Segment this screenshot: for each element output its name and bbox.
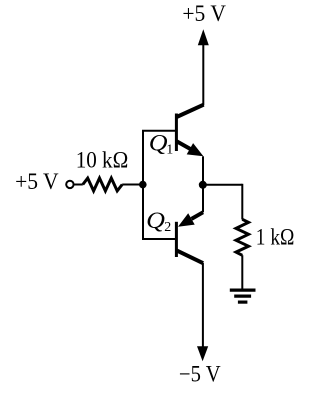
- wire: left vertical joining both bases: [142, 131, 144, 239]
- label Q1: [149, 130, 174, 157]
- transistor Q1 (NPN): [175, 105, 204, 157]
- wire: R2 to ground: [241, 255, 243, 289]
- resistor R1 10 kOhm (horizontal zigzag): [83, 178, 122, 191]
- wire: to Q1 base: [142, 130, 176, 132]
- node: output junction dot: [199, 181, 207, 189]
- ground: [230, 290, 256, 302]
- power +5 V arrow: [198, 29, 209, 45]
- svg-text:+5 V: +5 V: [182, 1, 226, 26]
- wire: terminal to resistor R1: [73, 184, 82, 186]
- svg-text:2: 2: [164, 220, 171, 235]
- svg-text:1 kΩ: 1 kΩ: [256, 225, 295, 250]
- wire: R1 to input node: [122, 184, 143, 186]
- svg-text:−5 V: −5 V: [179, 362, 221, 387]
- svg-text:+5 V: +5 V: [15, 169, 59, 194]
- wire: Q2 collector down to -5V supply: [202, 263, 204, 347]
- svg-text:Q: Q: [146, 208, 165, 233]
- wire: to Q2 base: [142, 238, 176, 240]
- wire: +5V supply down to Q1 collector: [202, 44, 204, 105]
- svg-text:Q: Q: [149, 130, 168, 155]
- svg-text:1: 1: [166, 143, 173, 158]
- svg-text:10 kΩ: 10 kΩ: [76, 148, 129, 173]
- node: input junction dot: [139, 181, 147, 189]
- label Q2: [146, 208, 171, 235]
- wire: down to R2: [241, 184, 243, 220]
- wire: Q1 emitter to output node: [202, 156, 204, 212]
- terminal: input open circle: [66, 181, 73, 188]
- resistor R2 1 kOhm (vertical zigzag): [236, 219, 249, 255]
- power -5 V arrow: [197, 346, 208, 361]
- transistor Q2 (PNP): [175, 212, 203, 263]
- wire: output node to load resistor: [203, 184, 243, 186]
